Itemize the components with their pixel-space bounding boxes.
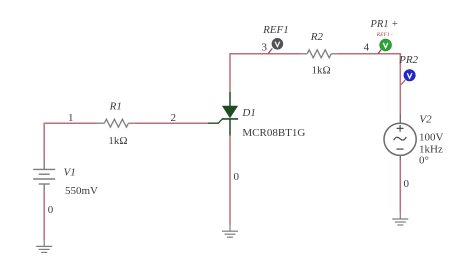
svg-text:1kΩ: 1kΩ <box>312 64 331 76</box>
svg-text:V2: V2 <box>419 113 432 125</box>
ground (right) <box>392 213 408 225</box>
svg-text:0: 0 <box>403 178 409 190</box>
svg-text:550mV: 550mV <box>65 185 98 197</box>
resistor R1 <box>98 119 134 127</box>
probe PR2 <box>401 70 415 85</box>
svg-text:PR2: PR2 <box>398 54 418 66</box>
svg-text:REF1: REF1 <box>262 24 289 36</box>
svg-text:0: 0 <box>48 204 54 216</box>
svg-text:4: 4 <box>364 42 370 54</box>
svg-text:0: 0 <box>233 171 239 183</box>
ground (middle) <box>222 225 238 237</box>
wire: V1 bottom to ground <box>43 191 45 240</box>
resistor R2 <box>301 50 337 58</box>
svg-text:R1: R1 <box>109 100 122 112</box>
svg-text:PR1 +: PR1 + <box>370 19 399 30</box>
svg-text:0°: 0° <box>419 154 429 166</box>
svg-text:V1: V1 <box>64 166 76 178</box>
svg-text:R2: R2 <box>310 31 324 43</box>
wire: V1 top to node 1 / R1 left <box>44 123 98 157</box>
AC source V2 <box>384 114 416 160</box>
svg-text:REF1 -: REF1 - <box>376 32 393 38</box>
svg-text:100V: 100V <box>419 131 444 143</box>
wire: D1 anode up and top wire to R2 left (node 3) <box>230 54 301 92</box>
svg-text:1: 1 <box>68 112 74 124</box>
wire: R2 right (node 4) to corner and down to V2 top <box>337 54 400 114</box>
ground (left) <box>36 240 52 252</box>
svg-text:D1: D1 <box>241 107 255 119</box>
SCR D1 <box>208 92 238 136</box>
wire: V2 bottom to ground <box>399 159 401 213</box>
probe REF1 <box>268 38 283 54</box>
wire: R1 right (node 2) to D1 gate <box>134 122 208 124</box>
svg-text:2: 2 <box>170 112 176 124</box>
wire: D1 cathode down to ground <box>229 136 231 226</box>
battery V1 <box>33 158 55 192</box>
svg-text:MCR08BT1G: MCR08BT1G <box>242 127 305 139</box>
svg-text:1kΩ: 1kΩ <box>108 135 127 147</box>
probe PR1 <box>378 39 391 53</box>
svg-text:3: 3 <box>262 42 268 54</box>
